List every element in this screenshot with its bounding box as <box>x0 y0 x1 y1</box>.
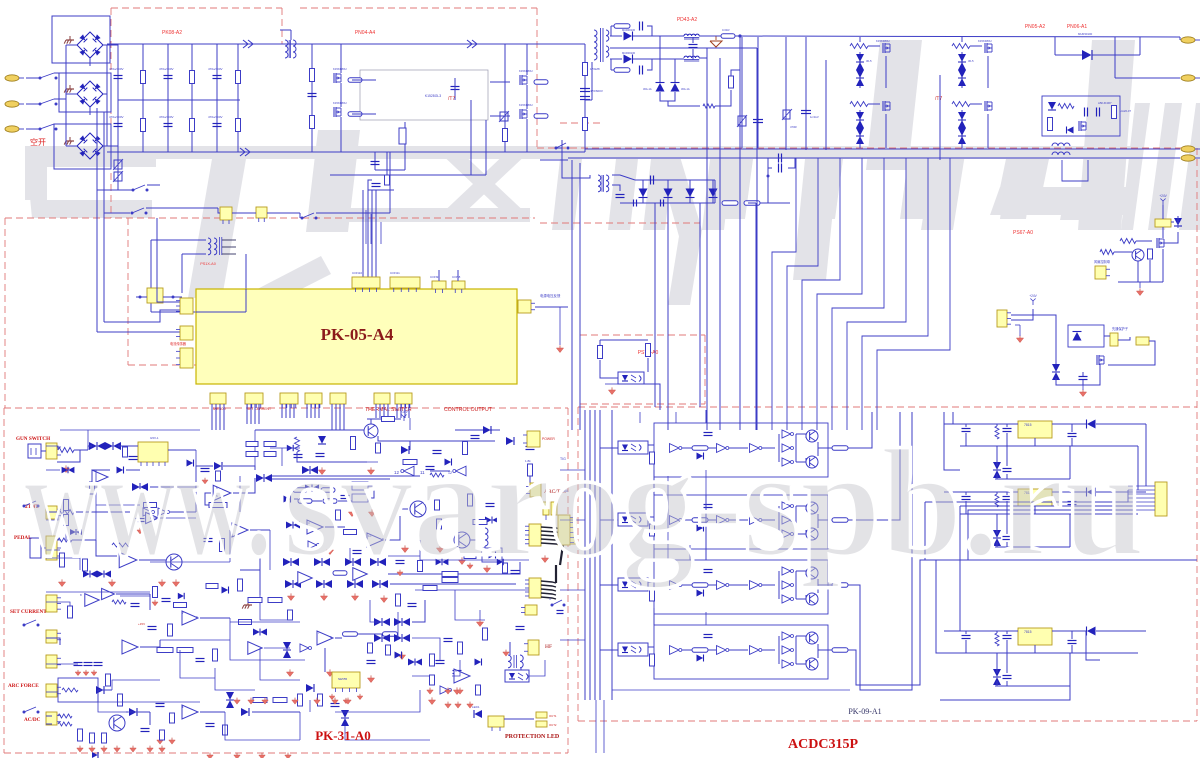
wire <box>762 649 775 651</box>
resistor R66 <box>157 648 173 653</box>
wire <box>526 44 528 75</box>
wire <box>254 404 256 424</box>
wire <box>936 560 1018 653</box>
wire <box>944 412 960 470</box>
wire <box>633 35 684 37</box>
wire <box>1071 438 1073 446</box>
resistor R82 <box>298 694 303 706</box>
connector J18 <box>245 393 263 404</box>
wire <box>682 649 692 651</box>
wire <box>580 175 590 178</box>
transformer T1 <box>285 40 288 58</box>
wire <box>46 446 58 450</box>
wire <box>610 59 612 70</box>
wire <box>647 26 652 36</box>
wire <box>419 540 421 560</box>
resistor R10 <box>583 118 588 131</box>
resistor R78 <box>170 713 175 723</box>
ground <box>130 748 136 752</box>
ground <box>351 596 358 601</box>
connector J33 <box>46 684 57 697</box>
wire <box>1054 37 1056 55</box>
diode pair D50 <box>374 634 382 642</box>
wire <box>370 419 372 424</box>
wire <box>996 474 998 479</box>
svg-text:OUT2: OUT2 <box>549 723 557 727</box>
ground <box>541 558 548 563</box>
wire <box>490 115 510 117</box>
junction <box>739 35 741 37</box>
capacitor C61 <box>704 504 713 506</box>
capacitor C57 <box>396 560 405 562</box>
op-amp U9 <box>232 523 248 537</box>
wire <box>394 418 401 420</box>
resistor R61 <box>112 600 126 604</box>
diode pair D45 <box>347 580 355 588</box>
resistor R105 <box>430 473 444 477</box>
box <box>654 423 828 477</box>
inverter U37 <box>750 516 759 525</box>
inductor L7 <box>1052 152 1070 155</box>
wire <box>338 500 352 502</box>
wire <box>74 511 130 513</box>
wire <box>272 478 390 480</box>
capacitor C27 <box>129 456 138 458</box>
wire <box>692 37 694 43</box>
wire <box>1108 341 1155 365</box>
wire <box>787 158 818 430</box>
wire <box>1179 37 1181 40</box>
wire <box>660 92 675 101</box>
connector J51 <box>558 515 570 545</box>
wire <box>568 157 1180 159</box>
ground <box>380 598 387 603</box>
wire <box>370 600 382 622</box>
diode D75 <box>697 453 704 460</box>
module boundary <box>5 217 535 219</box>
wire <box>96 190 98 332</box>
capacitor C3 <box>164 75 173 77</box>
wire <box>66 145 77 147</box>
resistor R113 <box>418 561 423 572</box>
wire <box>1118 281 1163 283</box>
resistor R115 <box>153 587 158 598</box>
wire <box>87 430 89 446</box>
resistor R62 <box>68 606 73 618</box>
wire <box>960 513 1138 515</box>
wire <box>959 506 961 631</box>
wire <box>600 584 618 586</box>
wire <box>485 120 487 175</box>
connector J40 <box>530 483 541 497</box>
connector J50 <box>536 721 547 727</box>
wire <box>147 184 160 186</box>
wire <box>603 700 605 753</box>
wire <box>396 404 398 418</box>
module boundary <box>580 403 705 405</box>
inverter U52 <box>782 632 791 640</box>
ground <box>152 602 158 606</box>
wire <box>1164 232 1178 243</box>
wire <box>611 69 614 71</box>
resistor R99 <box>248 598 262 603</box>
wire <box>762 519 775 521</box>
wire <box>455 590 485 620</box>
connector J46 <box>525 605 537 615</box>
resistor R63 <box>168 624 173 636</box>
svg-text:470u/400V: 470u/400V <box>208 115 223 119</box>
wire <box>584 44 586 152</box>
resistor R38 <box>295 437 300 452</box>
wire <box>299 712 301 740</box>
resistor R22 <box>744 201 760 206</box>
wire <box>499 111 509 122</box>
wire <box>97 331 180 333</box>
svg-text:CON10: CON10 <box>352 271 362 275</box>
diode pair D24 <box>105 442 113 450</box>
wire <box>66 93 77 95</box>
wire <box>150 561 230 563</box>
wire <box>778 434 780 462</box>
wire <box>340 83 342 107</box>
wire <box>98 690 150 712</box>
wire <box>689 545 691 560</box>
wire <box>817 644 819 658</box>
transistor Q8 <box>984 101 986 111</box>
diode pair D38 <box>286 522 293 529</box>
svg-text:+15V: +15V <box>400 410 408 414</box>
inverter U53 <box>782 646 791 654</box>
capacitor C38 <box>84 662 93 664</box>
wire <box>368 180 372 190</box>
wire <box>306 404 308 418</box>
diode D18 <box>1048 102 1056 110</box>
svg-text:PK08-A2: PK08-A2 <box>162 30 182 36</box>
capacitor C55 <box>511 570 520 572</box>
transistor Q5 <box>882 43 884 53</box>
svg-text:电流传感器: 电流传感器 <box>170 341 187 346</box>
resistor R19 <box>703 104 715 108</box>
op-amp U13 <box>298 572 312 585</box>
wire <box>965 501 967 514</box>
diode D3 <box>656 83 665 92</box>
connector J36 <box>46 655 57 668</box>
wire <box>762 584 775 586</box>
inverter U32 <box>782 444 791 452</box>
op-amp U5 <box>213 485 231 500</box>
diode pair D60 <box>485 517 492 524</box>
wire <box>1062 160 1088 181</box>
wire <box>1114 251 1132 253</box>
diode pair D22 <box>1052 364 1060 372</box>
wire <box>654 203 656 407</box>
wire <box>599 340 601 345</box>
op-amp U26 <box>146 512 159 523</box>
wire <box>859 52 861 88</box>
svg-text:+15V: +15V <box>138 622 145 626</box>
wire <box>103 44 118 46</box>
wire <box>1162 249 1164 282</box>
resistor R112 <box>264 452 276 457</box>
resistor R71 <box>383 632 398 637</box>
wire <box>599 410 601 700</box>
wire <box>924 502 926 560</box>
ground <box>159 748 165 752</box>
wire <box>196 311 246 313</box>
capacitor C44 <box>331 703 340 705</box>
capacitor C68 <box>962 496 971 498</box>
wire <box>181 254 183 293</box>
wire <box>239 476 241 512</box>
diode pair D48 <box>374 618 382 626</box>
ground <box>367 470 374 475</box>
diode D28 <box>506 437 514 445</box>
capacitor C26 <box>1079 376 1088 378</box>
connector J21 <box>330 393 346 404</box>
wire <box>46 512 58 520</box>
connector J17 <box>210 393 226 404</box>
switch SW10 <box>23 711 25 713</box>
wire <box>768 157 772 159</box>
wire <box>729 649 748 651</box>
transistor Q15 <box>410 501 426 517</box>
diode pair D49 <box>394 618 402 626</box>
op-amp U14 <box>353 568 367 581</box>
resistor R30 <box>385 175 390 185</box>
wire <box>54 72 66 74</box>
wire <box>653 608 655 625</box>
wire <box>778 506 780 534</box>
resistor R83 <box>318 694 323 706</box>
box <box>482 548 502 562</box>
wire <box>325 526 345 528</box>
diode pair D30 <box>132 483 140 491</box>
module boundary <box>560 122 600 124</box>
resistor R117 <box>216 471 221 481</box>
wire <box>1006 653 1008 673</box>
wire <box>409 418 411 430</box>
wire <box>1069 446 1071 479</box>
capacitor C42 <box>156 703 165 705</box>
ground <box>1136 291 1143 296</box>
wire <box>633 58 684 60</box>
wire <box>996 492 998 494</box>
diode D58 <box>92 752 98 758</box>
resistor R77 <box>118 694 123 706</box>
wire <box>545 515 547 520</box>
svg-text:K1528GL3: K1528GL3 <box>425 94 441 98</box>
transistor Q25 <box>806 658 818 670</box>
wire <box>561 140 563 160</box>
wire <box>961 37 963 42</box>
capacitor C70 <box>1068 501 1077 503</box>
wire <box>352 113 376 115</box>
inductor L10 <box>485 528 488 546</box>
svg-text:K15KF80U: K15KF80U <box>519 103 533 107</box>
wire <box>215 668 255 690</box>
connector J39 <box>332 672 360 688</box>
ground <box>1079 392 1086 397</box>
wire <box>255 429 367 431</box>
svg-text:风扇控制母: 风扇控制母 <box>1094 259 1110 264</box>
wire <box>555 565 557 583</box>
capacitor C40 <box>367 660 376 662</box>
wire <box>668 101 700 106</box>
resistor R44 <box>90 482 95 494</box>
capacitor C75 <box>1003 675 1012 677</box>
wire <box>330 174 486 176</box>
capacitor C60 <box>704 432 713 434</box>
resistor R126 <box>832 583 848 588</box>
connector J25 <box>1095 266 1106 279</box>
wire <box>996 631 998 633</box>
connector J16 <box>518 300 531 313</box>
wire <box>490 81 510 83</box>
transistor Q2 <box>333 107 335 117</box>
ground <box>207 755 213 758</box>
junction <box>767 175 769 177</box>
wire <box>117 152 119 190</box>
connector J47 <box>528 640 539 655</box>
ground <box>367 678 374 683</box>
wire <box>358 633 382 635</box>
diode D83 <box>1087 627 1096 636</box>
wire <box>714 180 716 203</box>
capacitor C54 <box>444 638 453 640</box>
transistor Q23 <box>806 593 818 605</box>
wire <box>1128 509 1155 511</box>
wire <box>795 571 797 599</box>
inverter U38 <box>782 502 791 510</box>
op-amp U18 <box>122 640 138 654</box>
wire <box>74 449 88 451</box>
resistor R116 <box>206 584 218 589</box>
wire <box>940 686 1070 700</box>
wire <box>944 423 1018 425</box>
inductor L12 <box>520 655 523 668</box>
diode D79 <box>1087 420 1096 429</box>
wire <box>818 519 832 521</box>
wire <box>735 36 1180 37</box>
svg-text:NE555: NE555 <box>338 677 348 681</box>
wire <box>560 528 563 565</box>
svg-text:PK-05-A4: PK-05-A4 <box>321 325 394 344</box>
diode D76 <box>697 525 704 532</box>
op-amp U23 <box>454 669 470 683</box>
wire <box>648 646 654 648</box>
ground <box>556 348 563 353</box>
resistor R114 <box>464 554 476 559</box>
module boundary <box>579 335 581 404</box>
wire <box>996 424 998 426</box>
switch SW6 <box>131 212 133 214</box>
wire <box>182 253 206 255</box>
resistor R39 <box>351 437 356 450</box>
inductor L6 <box>1052 143 1070 146</box>
svg-text:/T7: /T7 <box>935 96 942 102</box>
diode pair D84 <box>993 669 1001 677</box>
op-amp U2 <box>92 470 108 484</box>
wire <box>1006 433 1008 446</box>
wire <box>1006 501 1008 514</box>
wire <box>639 412 641 423</box>
diode pair D36 <box>83 571 90 578</box>
wire <box>965 433 967 446</box>
wire <box>454 78 456 100</box>
wire <box>647 59 652 70</box>
transistor Q19 <box>806 456 818 468</box>
ground <box>345 700 351 704</box>
wire <box>610 26 612 36</box>
diode pair D14 <box>958 70 966 78</box>
terminal J3 <box>5 126 19 132</box>
wire <box>689 198 691 203</box>
wire <box>412 675 430 677</box>
diode D78 <box>697 655 704 662</box>
module boundary <box>1196 148 1198 721</box>
svg-text:电源电压反馈: 电源电压反馈 <box>540 293 561 298</box>
diode pair D23 <box>89 442 97 450</box>
wire <box>54 98 66 100</box>
wire <box>97 189 118 191</box>
module boundary <box>4 407 568 409</box>
ground <box>357 696 363 700</box>
wire <box>314 404 316 418</box>
connector J29 <box>46 443 57 459</box>
op-amp U17 <box>182 611 198 625</box>
wire <box>585 148 1180 150</box>
optocoupler U41 <box>618 578 648 591</box>
wire <box>311 44 313 152</box>
ground <box>234 755 240 758</box>
wire <box>1092 54 1140 56</box>
wire <box>868 45 880 47</box>
diode pair D53 <box>226 692 234 700</box>
op-amp U21 <box>182 705 198 719</box>
wire <box>541 539 560 541</box>
ground <box>326 672 333 677</box>
module boundary <box>578 720 1197 722</box>
resistor R73 <box>386 645 391 655</box>
resistor R21 <box>722 201 738 206</box>
diode pair D71 <box>436 559 442 565</box>
resistor R4 <box>190 119 195 132</box>
inverter U47 <box>782 595 791 603</box>
wire <box>767 176 769 203</box>
wire <box>120 595 150 597</box>
wire <box>610 47 757 49</box>
svg-text:MUR30100: MUR30100 <box>622 51 636 55</box>
diode D7 <box>686 189 695 198</box>
resistor R54 <box>220 539 225 552</box>
resistor R104 <box>503 563 508 573</box>
resistor R86 <box>78 729 83 741</box>
resistor R46 <box>293 488 307 493</box>
wire <box>1006 681 1008 686</box>
resistor R60 <box>238 579 243 591</box>
svg-text:470u/400V: 470u/400V <box>109 67 124 71</box>
resistor R111 <box>246 452 258 457</box>
box <box>352 482 368 490</box>
wire <box>1071 631 1073 639</box>
wire <box>1128 485 1155 487</box>
wire <box>952 412 954 424</box>
svg-text:30A-1A: 30A-1A <box>643 87 652 91</box>
wire <box>595 700 597 753</box>
wire <box>772 158 796 430</box>
inverter U45 <box>782 567 791 575</box>
bridge rectifier BR3 <box>77 133 103 159</box>
